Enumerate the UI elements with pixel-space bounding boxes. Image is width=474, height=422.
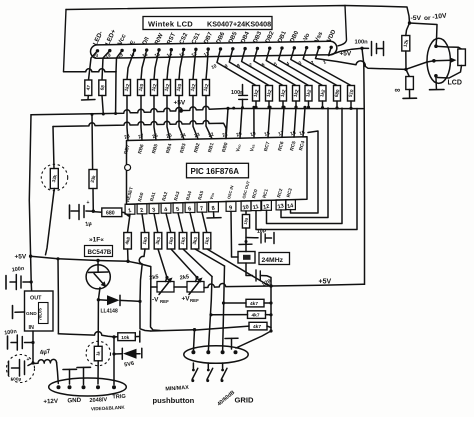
resistor 68 (LED+) xyxy=(99,80,106,96)
svg-text:100µ: 100µ xyxy=(11,377,22,383)
svg-text:or: or xyxy=(424,15,431,22)
resistor 1k2 (DB7 series) xyxy=(203,80,210,96)
LCD pin 17 E xyxy=(133,49,136,52)
wire RA5 to ladder xyxy=(207,249,271,286)
terminal bar (1u) xyxy=(69,205,71,219)
LCD pin 3 -Vo xyxy=(305,46,308,49)
regulator 78L05 U3 xyxy=(25,291,54,331)
resistor 33k in dashed circle xyxy=(41,164,67,190)
svg-text:4k7: 4k7 xyxy=(253,324,261,330)
resistor 1k0 (D/I series) xyxy=(138,80,145,96)
LCD module outline U2 xyxy=(66,6,347,46)
LCD pin 1 VDD xyxy=(330,46,333,49)
pill pin SW1 xyxy=(191,350,195,354)
pushbutton switch S1 xyxy=(192,363,194,369)
LCD pin 7 DB3 xyxy=(256,47,259,50)
junction TRIG top xyxy=(112,335,115,338)
junction +5V left xyxy=(29,255,32,258)
ground LED- xyxy=(82,99,96,102)
wire switch col3 xyxy=(223,266,225,352)
wire LCD CS2 to resistor xyxy=(179,50,184,80)
wire RA3 to switch col2 xyxy=(183,249,212,277)
capacitor 1u electrolytic xyxy=(86,210,93,212)
wire RA1 to -Vref wiper xyxy=(158,249,167,278)
LCD pin 9 DB5 xyxy=(231,47,234,50)
LCD pin 5 DB1 xyxy=(280,46,283,49)
wire DB3 pullup to bus xyxy=(295,101,297,107)
wire LCD R/W to resistor xyxy=(154,50,159,80)
pill pin SW2 xyxy=(206,350,210,354)
wire DB5 pullup to bus xyxy=(268,101,270,107)
svg-text:pushbutton: pushbutton xyxy=(153,396,195,405)
PIC pin 11 RC0 xyxy=(251,201,261,211)
svg-text:24MHz: 24MHz xyxy=(262,257,284,264)
junction xyxy=(56,257,59,260)
svg-text:GRID: GRID xyxy=(235,396,255,405)
wire CS1 resistor to PIC pin 23 xyxy=(193,96,198,140)
resistor 1k2 (E series) xyxy=(124,80,131,96)
wire DB0 pullup to bus xyxy=(336,101,338,108)
LCD connector pill xyxy=(91,41,337,58)
wire between trimmers xyxy=(174,286,187,288)
svg-text:4k7: 4k7 xyxy=(250,301,258,307)
resistor 33k (reset pullup) xyxy=(91,114,94,169)
PIC pin 4 RA2 xyxy=(161,203,171,213)
resistor 4k8 (MCLR pullup) xyxy=(128,214,131,232)
ground (pin GND1) xyxy=(69,370,71,385)
LCD pin 8 DB4 xyxy=(243,47,246,50)
connector pin +12V xyxy=(57,385,61,389)
svg-text:KS0407+24KS0408: KS0407+24KS0408 xyxy=(207,20,271,29)
wire LCD DB6 fan to pullup xyxy=(217,49,256,86)
connector pin GND1 xyxy=(68,385,72,389)
svg-text:+12V: +12V xyxy=(43,398,59,406)
resistor 1k2 (DB2 pullup) xyxy=(305,86,312,102)
capacitor 100u in dashed circle xyxy=(7,355,35,383)
pill pin GRID xyxy=(234,350,238,354)
svg-text:+5V: +5V xyxy=(340,51,352,58)
resistor 1k0 (RA0) xyxy=(142,214,145,233)
LCD pin 14 RST xyxy=(170,48,173,51)
wire LCD RST to resistor xyxy=(167,50,171,80)
wiper arrow xyxy=(434,59,452,62)
wire TRIG vertical xyxy=(113,337,115,385)
zener diode 5V6 xyxy=(114,353,122,355)
LCD pin 15 R/W xyxy=(157,48,160,51)
wire RST resistor to PIC pin 25 xyxy=(167,96,170,140)
node A junction xyxy=(93,211,102,214)
junction ladder top xyxy=(269,284,272,287)
trimmer -Vref 2k5 xyxy=(157,282,174,293)
wire -Vo pullup to bus xyxy=(350,101,352,108)
wire bus to PIC top pin at 282 xyxy=(282,107,284,137)
terminal bar (100n input) xyxy=(7,336,9,349)
junction xyxy=(252,106,255,109)
LCD pin 6 DB2 xyxy=(268,47,271,50)
junction MCLR pullup xyxy=(126,260,129,263)
PIC pin 6 RA4 xyxy=(185,202,195,212)
junction zener xyxy=(112,352,115,355)
wire pot bottom to ground xyxy=(435,76,438,89)
resistor 1k0 (CS2 series) xyxy=(176,80,183,96)
junction diode out xyxy=(138,300,141,303)
svg-text:1µ: 1µ xyxy=(85,221,93,228)
connector pill (power/video) J1 xyxy=(49,378,127,396)
pot pin wiper xyxy=(432,59,436,63)
wire emitter down through 1k (bump over y335) xyxy=(97,300,99,347)
resistor 3k3 (RA1) xyxy=(154,214,158,233)
junction wiper R xyxy=(195,276,198,279)
wire x58 branch down xyxy=(57,259,59,334)
LCD pin 20 LED- xyxy=(96,49,99,52)
wire Vcc pin down xyxy=(116,50,122,71)
svg-text:100n: 100n xyxy=(355,40,369,46)
terminal bar (10k) xyxy=(139,331,141,342)
junction emitter xyxy=(97,298,100,301)
wire RA2 to +Vref wiper xyxy=(171,249,197,278)
wire -Vo to contrast pot (bumpy) xyxy=(316,47,434,69)
LCD pin 10 DB6 xyxy=(219,47,222,50)
wire LCD D/I to resistor xyxy=(141,50,147,79)
resistor 1k2 (DB3 pullup) xyxy=(293,86,300,102)
wire bus to PIC top pin at 303 xyxy=(303,107,305,137)
resistor 1k5 (RA5) xyxy=(202,212,207,232)
wire DB2 pullup to bus xyxy=(308,101,310,107)
wire DB7 resistor to PIC pin 22 xyxy=(206,96,212,139)
svg-text:LL4148: LL4148 xyxy=(101,309,118,315)
PIC pin 5 RA3 xyxy=(173,203,183,213)
resistor (trim) xyxy=(406,77,414,90)
junction col1 xyxy=(193,328,196,331)
svg-text:PIC 16F876A: PIC 16F876A xyxy=(191,167,240,176)
wire RB0 corner down through 33k xyxy=(53,127,54,169)
wire DB4 pullup to bus xyxy=(282,101,284,107)
wire bus to PIC top pin at 294 xyxy=(294,107,296,137)
crystal X1 24MHz xyxy=(238,252,255,264)
junction -5V node xyxy=(408,21,411,24)
svg-text:LCD: LCD xyxy=(448,80,462,87)
svg-text:+: + xyxy=(27,357,30,363)
svg-text:TRIG: TRIG xyxy=(112,394,126,401)
junction xyxy=(245,240,248,243)
wire LED- pin to R-LED- xyxy=(89,51,98,80)
svg-text:4k7: 4k7 xyxy=(252,313,260,319)
wire RA4 to switch col3 xyxy=(195,249,225,266)
+5V wire to transistor area xyxy=(31,256,151,266)
resistor 4k7 (ladder mid) xyxy=(248,311,266,319)
wire DB6 pullup to bus xyxy=(255,101,257,107)
PIC pin 10 OSC OUT xyxy=(241,201,251,211)
svg-text:-V: -V xyxy=(152,297,159,304)
junction xyxy=(31,341,34,344)
resistor 680 xyxy=(102,208,122,217)
resistor 10k xyxy=(118,333,136,341)
wire -5V node to pot top xyxy=(410,23,438,46)
resistor 680 (DB0 pullup) xyxy=(334,86,341,102)
PIC notch xyxy=(125,165,131,171)
resistor 510 (-Vo pullup) xyxy=(348,86,355,102)
ground (trim) xyxy=(403,97,417,99)
junction xyxy=(404,68,407,71)
wire switch col2 xyxy=(208,277,212,352)
wire E resistor to PIC pin 28 xyxy=(127,96,128,141)
wire inductor to +12V pin xyxy=(57,363,59,384)
resistor 1k in dashed circle xyxy=(86,341,110,365)
svg-text:GND: GND xyxy=(67,397,82,405)
wire LCD DB0 fan to pullup xyxy=(291,48,337,86)
svg-text:10k: 10k xyxy=(121,335,129,341)
wire box-left to Vcc (bumpy) xyxy=(64,69,117,72)
junction collector xyxy=(96,259,99,262)
capacitor 22p xyxy=(246,263,253,276)
junction +5V node xyxy=(360,47,363,50)
wire LCD DB2 fan to pullup xyxy=(266,48,308,85)
wire OSC IN pin9 to crystal xyxy=(231,211,238,257)
PIC label box xyxy=(187,163,249,178)
trimmer resistor (contrast) xyxy=(458,49,466,66)
junction xyxy=(114,112,117,115)
+5V bus wire xyxy=(31,106,363,115)
wire VDD pin to +5V node xyxy=(329,47,363,55)
left +5V rail xyxy=(29,115,31,291)
wire CS2 resistor to PIC pin 24 xyxy=(179,96,184,140)
wire RC3 pin14 around right (nest inner) xyxy=(291,131,319,213)
wire VDD pin20 to bus xyxy=(240,108,242,138)
wire VSS pin19 to bus xyxy=(253,107,255,138)
wire pot top to trimmer resistor xyxy=(436,46,461,49)
svg-text:+5V: +5V xyxy=(319,279,332,286)
diode LL4148 xyxy=(98,299,107,301)
wire LED- resistor to ground xyxy=(87,96,89,100)
LCD pin 19 LED+ xyxy=(108,49,111,52)
wire LCD -Vo fan to pullup xyxy=(303,48,351,86)
resistor 180 (OSC OUT) xyxy=(245,211,247,215)
svg-text:∞: ∞ xyxy=(395,86,401,95)
resistor 1k0 (RA2) xyxy=(166,213,171,232)
resistor 47 (LED-) xyxy=(85,80,92,96)
junction xyxy=(91,113,94,116)
wire LCD DB4 fan to pullup xyxy=(242,49,283,86)
PIC pin 7 RA5 xyxy=(197,202,207,212)
junction xyxy=(241,106,244,109)
wire y335 with bump over emitter xyxy=(58,332,114,337)
PIC pin 9 OSC IN xyxy=(226,201,236,211)
svg-text:OUT: OUT xyxy=(30,296,42,302)
resistor 1k2 (DB6 pullup) xyxy=(253,86,260,102)
terminal bar (100n) xyxy=(383,42,385,56)
wire LCD DB7 to resistor xyxy=(206,49,208,79)
resistor 12k xyxy=(402,36,410,52)
wire DB1 pullup to bus xyxy=(322,101,324,108)
resistor 1k2 (DB5 pullup) xyxy=(266,86,273,102)
resistor 4k7 (ladder bottom) xyxy=(249,322,267,330)
wire bus to PIC top pin at 268 xyxy=(268,107,270,137)
LCD contrast pot (ellipse) xyxy=(427,38,450,83)
wire R/W resistor to PIC pin 26 xyxy=(154,96,156,140)
terminal bar (5V6) xyxy=(141,348,143,357)
svg-text:78L05: 78L05 xyxy=(38,307,43,320)
svg-text:680: 680 xyxy=(106,211,115,217)
wire top to -5V terminal xyxy=(345,6,410,24)
wire LCD DB1 fan to pullup xyxy=(279,48,323,85)
wire LCD CS1 to resistor xyxy=(193,49,196,79)
label BC547B xyxy=(85,246,113,257)
wire Vcc to bus xyxy=(115,72,117,114)
svg-text:+5V: +5V xyxy=(174,99,186,106)
wire RA0 resistor down over +5V (bump) xyxy=(139,249,151,331)
wire trimmer L vertical xyxy=(151,267,161,331)
PIC 16F876A outline U1 xyxy=(127,137,308,205)
wire LCD DB5 fan to pullup xyxy=(229,49,269,86)
ground (pin8 VSS) xyxy=(213,212,215,218)
LCD pin 18 Vcc xyxy=(120,49,123,52)
wire LED+ pin to R-LED+ xyxy=(102,51,110,80)
resistor 1k5 (RA3) xyxy=(178,213,183,233)
resistor 1k2 (CS1 series) xyxy=(190,80,197,96)
svg-text:Wintek LCD: Wintek LCD xyxy=(148,20,193,29)
junction xyxy=(31,361,34,364)
ground (grid pill) xyxy=(231,339,233,350)
LCD pin 11 DB7 xyxy=(207,47,210,50)
resistor 1k2 (DB1 pullup) xyxy=(319,86,326,102)
terminal bar (100n rail) xyxy=(5,276,7,290)
terminal bar (10p) xyxy=(273,233,275,244)
connector pin 2048/V xyxy=(96,385,100,389)
connector pin TRIG xyxy=(112,385,116,389)
PIC pin 3 RA1 xyxy=(149,204,159,214)
transistor Q1 BC547B xyxy=(86,265,110,289)
svg-text:REF: REF xyxy=(190,298,199,303)
title box Wintek LCD xyxy=(143,17,272,30)
wire RC2 pin13 around right xyxy=(281,108,328,218)
wire GRID pin diagonal xyxy=(236,331,271,348)
wire D/I resistor to PIC pin 27 xyxy=(141,96,142,141)
wire 12k to pot wire xyxy=(405,51,407,69)
svg-text:BC547B: BC547B xyxy=(88,249,112,256)
resistor 1k2 (RST series) xyxy=(164,80,171,96)
resistor 1k2 (DB4 pullup) xyxy=(280,86,287,102)
pot pin bottom xyxy=(434,74,438,78)
svg-text:2048/V: 2048/V xyxy=(89,397,107,404)
svg-text:+: + xyxy=(87,200,90,206)
connector pin GND2 xyxy=(82,385,86,389)
ground (pot) xyxy=(430,89,445,91)
junction ladder bottom xyxy=(269,329,272,332)
pushbutton switch S3 xyxy=(222,363,224,369)
wire +5V node down right side xyxy=(362,48,365,284)
svg-text:»1F«: »1F« xyxy=(89,237,104,244)
wire ladder vertical xyxy=(270,286,272,331)
PIC pin 8 V xyxy=(209,202,219,212)
PIC pin 1 RESET xyxy=(125,204,135,214)
resistor 4k7 (ladder top) xyxy=(246,299,264,307)
label 24MHz xyxy=(259,253,290,265)
ground (pin GND2) xyxy=(83,368,85,385)
junction blob xyxy=(179,109,183,113)
wire bus to PIC top pin at 226 xyxy=(226,108,228,138)
wire pin1 to 680 xyxy=(122,212,130,216)
trimmer +Vref 2k5 xyxy=(187,282,204,293)
wire pot bottom lead xyxy=(438,66,462,79)
pushbutton switch S2 xyxy=(207,363,209,369)
svg-text:IN: IN xyxy=(29,325,34,331)
resistor 3k3 (RA4) xyxy=(190,212,195,232)
wire RC0 pin11 around right xyxy=(256,108,357,229)
PIC pin 12 RC1 xyxy=(262,200,272,210)
LCD pin 4 DB0 xyxy=(293,46,296,49)
wire RC1 pin12 around right xyxy=(267,108,343,223)
svg-text:-5V: -5V xyxy=(411,15,422,22)
wire RB0 to 33k (bumpy) xyxy=(53,121,226,139)
wire -5V to 12k xyxy=(406,23,410,36)
junction xyxy=(102,112,105,115)
wire 78L05 IN down xyxy=(32,331,34,364)
pot pin top xyxy=(434,44,438,48)
pill pin SW3 xyxy=(221,350,225,354)
connector pill (pushbuttons) J2 xyxy=(184,346,248,364)
PIC pin 14 RC3 xyxy=(286,200,296,210)
ground stub (osc) xyxy=(245,242,247,245)
junction xyxy=(232,107,235,110)
wire LED+ resistor to +5V bus xyxy=(102,96,103,114)
wire LCD DB3 fan to pullup xyxy=(254,48,296,85)
LCD pin 16 D/I xyxy=(145,48,148,51)
svg-text:GND: GND xyxy=(26,311,37,317)
svg-text:+5V: +5V xyxy=(15,254,27,261)
junction wiper L xyxy=(165,276,168,279)
LCD pin 13 CS2 xyxy=(182,48,185,51)
svg-text:REF: REF xyxy=(160,299,169,304)
PIC pin 13 RC2 xyxy=(276,200,286,210)
LCD pin 12 CS1 xyxy=(194,48,197,51)
wire trim to ground xyxy=(409,90,411,98)
wire +5V long (bottom) xyxy=(204,284,365,288)
ground (78L05) xyxy=(15,311,25,313)
PIC pin 2 RA0 xyxy=(137,204,147,214)
wire emitter xyxy=(98,288,100,300)
wire LCD E to resistor xyxy=(127,50,134,79)
wire collector xyxy=(97,261,99,273)
LCD pin 2 Vss xyxy=(317,46,320,49)
wire switch col1 xyxy=(151,330,195,331)
wire trimmer L left lead xyxy=(151,286,157,288)
resistor 1k2 (R/W series) xyxy=(151,80,158,96)
svg-text:+V: +V xyxy=(182,296,191,303)
